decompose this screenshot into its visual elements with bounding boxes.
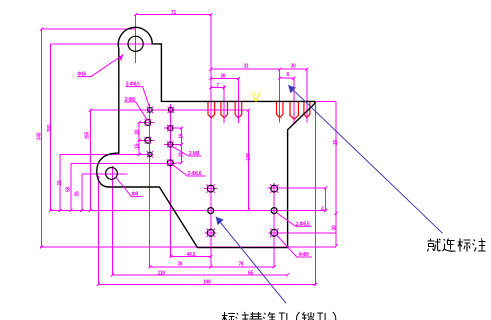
leader boss hole phi8: [115, 177, 142, 197]
row line y232.9: [269, 232, 337, 234]
svg-text:6: 6: [287, 72, 290, 78]
dim line y274.9 value 110 65: [112, 274, 287, 276]
svg-text:2-Φ8: 2-Φ8: [125, 97, 136, 103]
glyph 注: [473, 239, 486, 252]
dim vertical x71: [70, 164, 72, 211]
tooth centerline x294.2: [293, 78, 295, 124]
magenta rotated texts: [36, 124, 339, 230]
tooth centerline x238.4: [237, 79, 239, 124]
tooth centerline x279.7: [279, 69, 281, 122]
leader 2-phi8.5: [126, 87, 150, 108]
centerline big circle horizontal y43.8: [51, 43, 153, 45]
hole crosshairs short: [142, 123, 218, 233]
dim vertical x81.8: [81, 174, 83, 211]
dim vertical x90.4: [89, 110, 91, 210]
leaders with text: [77, 55, 312, 257]
dim line y284.4 value 148: [98, 283, 315, 285]
tooth R3: [304, 102, 310, 118]
extension y101.4 right: [315, 100, 336, 102]
svg-text:44.5: 44.5: [187, 252, 196, 258]
svg-text:105: 105: [246, 153, 252, 161]
dim line y256.5 value 44.5: [171, 256, 211, 258]
big boss hole: [128, 36, 143, 51]
glyph 销: [302, 312, 314, 320]
hole B1: [169, 108, 174, 113]
left boss hole: [106, 168, 118, 180]
svg-text:16: 16: [179, 133, 185, 138]
glyph 就: [428, 239, 441, 252]
hole A3: [145, 137, 151, 143]
dim line y29.2: [42, 28, 136, 30]
svg-text:15: 15: [333, 140, 339, 145]
small holes: [145, 108, 278, 237]
svg-text:30: 30: [332, 225, 338, 230]
svg-text:15: 15: [57, 180, 63, 185]
wire: magenta dimension verticals left fan: [42, 15, 337, 285]
dim chain y69.2: [211, 68, 307, 70]
hole A1: [148, 108, 153, 113]
svg-text:65: 65: [248, 270, 253, 276]
crosshair hole A2: [142, 122, 155, 124]
hole A4: [148, 152, 152, 156]
crosshair hole A3: [142, 139, 155, 141]
svg-text:78: 78: [238, 261, 243, 267]
dim vertical x248.4: [247, 110, 249, 210]
tooth centerline x306.9: [306, 69, 308, 122]
leader big circle: [77, 57, 120, 77]
dim vertical x41.5: [41, 29, 43, 247]
bracket x181.5 dims 16/18: [175, 128, 182, 163]
hole B3: [168, 142, 173, 147]
leader 2-M8: [173, 147, 202, 156]
blue leader arrow 2: [216, 217, 286, 303]
glyph 注: [236, 312, 249, 320]
hole P1 datum pin hole: [208, 208, 214, 214]
dim line y78.5 left: [211, 78, 239, 80]
tooth L2: [221, 102, 228, 118]
dim vertical x315.6: [315, 101, 317, 284]
svg-text:155: 155: [85, 131, 91, 139]
dim line y266.8 value 78 78: [150, 266, 275, 268]
svg-text:30: 30: [291, 64, 296, 70]
dim vertical x336: [335, 101, 337, 246]
dim line y87.6 value 7: [211, 87, 224, 89]
dim vertical x50.7: [50, 44, 52, 211]
svg-text:345: 345: [36, 132, 42, 140]
svg-text:71: 71: [171, 10, 176, 16]
svg-text:18: 18: [179, 152, 185, 157]
dim vertical x112.4 boss hole centerline: [111, 166, 113, 275]
leader 2-phi5.5: [277, 213, 312, 226]
hole B2: [168, 126, 173, 131]
crosshair hole B2: [164, 127, 177, 129]
dim line y78.2 right: [280, 77, 294, 79]
glyph 标: [222, 312, 235, 320]
glyph ）: [333, 312, 336, 320]
label 标注基准孔（销孔） bottom clipped: [222, 312, 336, 320]
svg-text:Φ16: Φ16: [77, 72, 86, 78]
part outline: [97, 27, 315, 247]
row line y154.5: [60, 154, 153, 156]
svg-text:31: 31: [243, 64, 248, 70]
svg-text:2-M8: 2-M8: [189, 151, 200, 157]
glyph 准: [263, 312, 276, 320]
tooth R2: [290, 102, 298, 120]
hole P2 datum pin hole: [271, 208, 277, 214]
svg-text:2-Φ8.5: 2-Φ8.5: [126, 82, 140, 88]
X marks on small holes: [145, 107, 279, 237]
leader 4-phi9: [277, 235, 312, 257]
magenta dim texts horizontal: [158, 10, 324, 286]
glyph （: [297, 312, 300, 320]
svg-text:380: 380: [47, 124, 53, 132]
svg-text:25: 25: [75, 191, 81, 196]
hole column x274.2 vertical: [273, 183, 275, 267]
crosshair hole N1: [205, 232, 217, 234]
glyph 孔: [316, 313, 328, 320]
boss hole centerline y173.9: [82, 173, 128, 175]
svg-text:2-Φ6.6: 2-Φ6.6: [188, 171, 202, 177]
glyph 近: [443, 239, 456, 252]
main column x210.8 vertical: [210, 15, 212, 267]
hole M2: [271, 185, 278, 192]
dimension end ticks: [40, 13, 338, 286]
wire: tooth centerlines: [224, 69, 307, 124]
glyph 标: [458, 239, 471, 252]
dim vertical x60: [59, 155, 61, 211]
glyph 孔: [278, 313, 290, 320]
bracket x139.2 dims 20/15: [139, 122, 146, 154]
svg-text:2-Φ5.5: 2-Φ5.5: [296, 221, 310, 227]
svg-text:4-Φ9: 4-Φ9: [298, 252, 309, 258]
svg-text:4: 4: [321, 206, 324, 212]
long dim line y210.4: [50, 209, 326, 211]
yellow surface mark: [251, 92, 260, 102]
svg-text:28: 28: [220, 73, 225, 79]
dim vertical x98.3: [97, 176, 99, 284]
tooth L3: [235, 102, 242, 118]
svg-text:20: 20: [135, 129, 141, 134]
hole column A vertical: [148, 104, 150, 267]
svg-text:58: 58: [66, 187, 72, 192]
svg-text:15: 15: [135, 143, 141, 148]
hole M1: [207, 185, 214, 192]
row line y163.5: [71, 163, 176, 165]
leader 2-phi8: [124, 102, 147, 120]
leader 2-phi6.6: [173, 165, 206, 176]
tooth centerline x224.2: [223, 85, 225, 123]
glyph 基: [249, 312, 262, 320]
svg-text:148: 148: [203, 280, 211, 286]
wire: magenta dimension horizontals: [40, 15, 336, 285]
long line y247: [40, 246, 336, 248]
tooth L1: [208, 102, 215, 118]
label 就近标注: [428, 239, 486, 252]
crosshair hole M1: [204, 188, 217, 190]
row line y187.8: [268, 187, 326, 189]
tooth R1: [277, 102, 283, 118]
hole N2: [271, 229, 278, 236]
svg-text:110: 110: [158, 270, 166, 276]
svg-text:78: 78: [177, 261, 182, 267]
hole A2: [145, 120, 151, 126]
svg-text:32: 32: [251, 92, 257, 98]
magenta leader texts: [77, 72, 310, 258]
hole column B vertical: [170, 104, 172, 257]
hole N1: [207, 229, 214, 236]
blue leader arrow 1: [288, 85, 442, 233]
teeth (red slots): [208, 102, 310, 120]
crosshair hole B3: [164, 144, 177, 146]
hole row1 line y110.1: [90, 109, 248, 111]
svg-text:Φ8: Φ8: [132, 192, 139, 198]
hole B4: [167, 160, 173, 166]
centerline big circle vertical: [135, 15, 137, 63]
dim line y14.6 value 71: [136, 14, 211, 16]
dim vertical x325.6: [325, 188, 327, 211]
